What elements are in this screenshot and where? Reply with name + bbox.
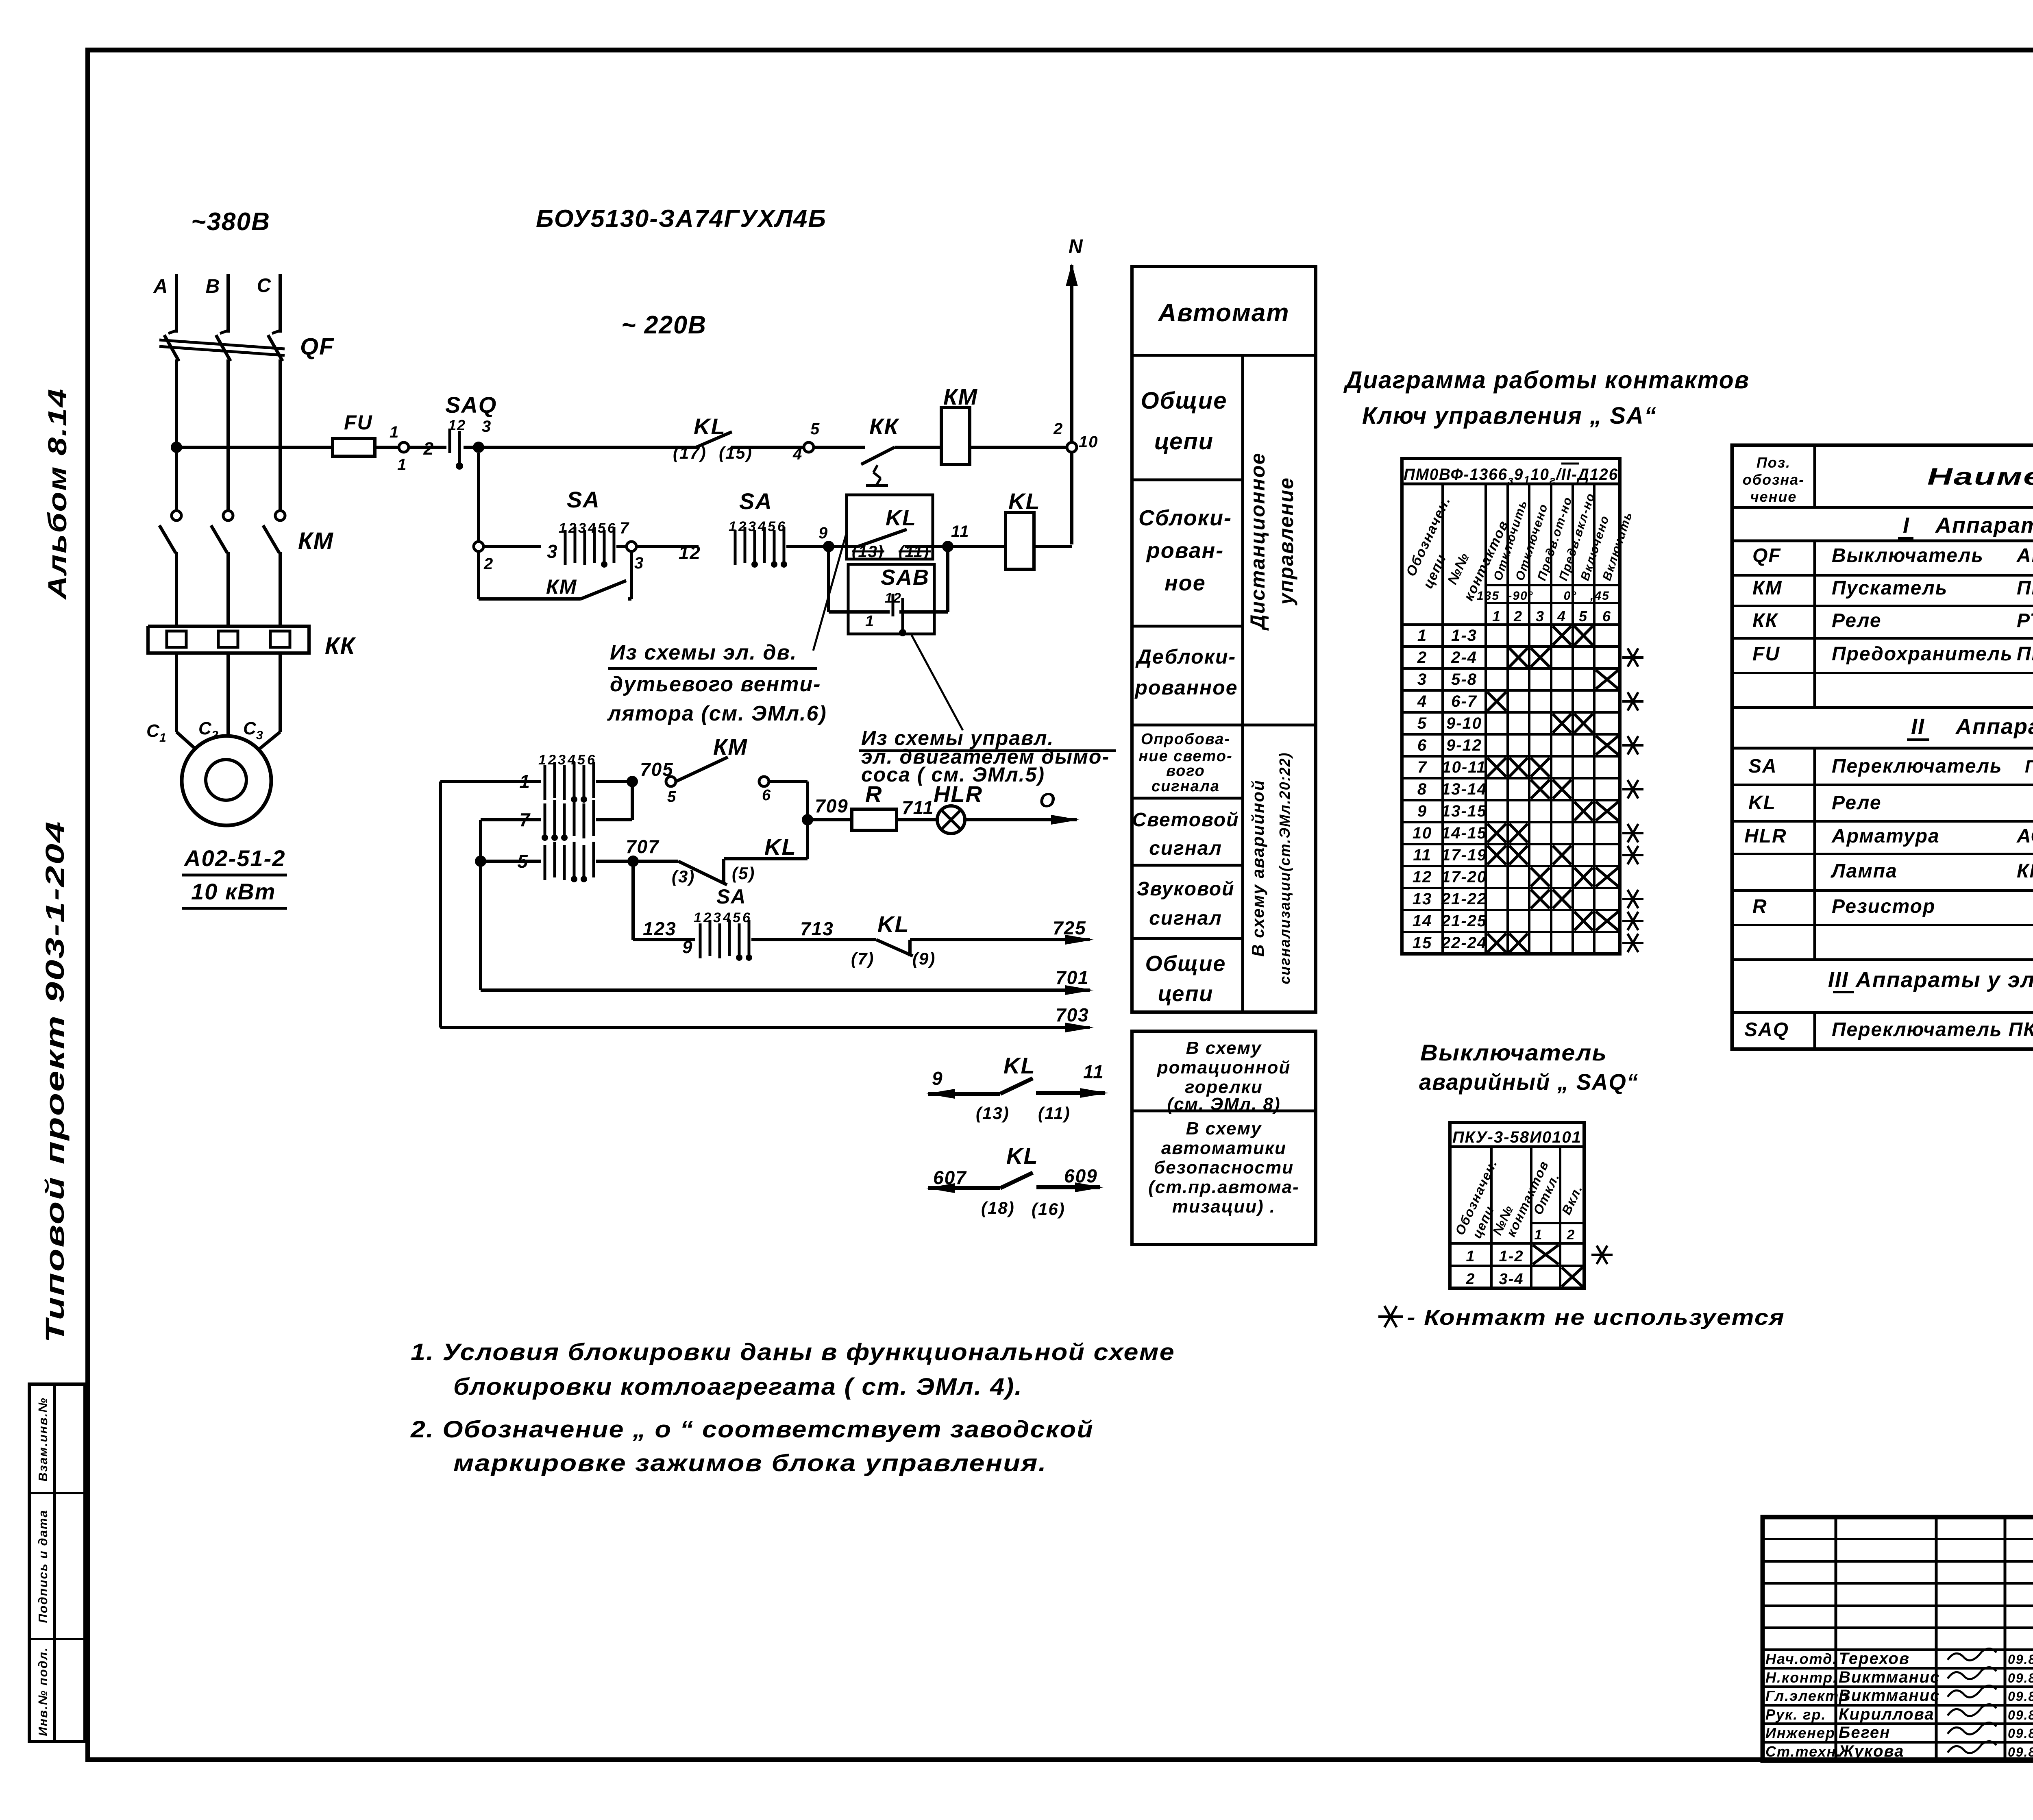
svg-text:блокировки котлоагрегата ( с: блокировки котлоагрегата ( ст. ЭМл. 4). <box>453 1374 1023 1400</box>
svg-text:КМ: КМ <box>546 575 577 598</box>
svg-text:~ 220В: ~ 220В <box>621 311 707 339</box>
wire node709 to resistor <box>808 818 852 821</box>
wire node 11 to KL coil <box>948 545 1006 548</box>
parts list table <box>1732 445 2033 1049</box>
svg-text:KL: KL <box>1006 1143 1038 1169</box>
svg-text:1: 1 <box>865 613 875 630</box>
svg-text:обозна-: обозна- <box>1743 471 1804 488</box>
svg-text:3: 3 <box>634 554 644 572</box>
junction node 707 <box>627 856 639 867</box>
svg-text:В: В <box>206 276 221 297</box>
svg-text:N: N <box>1069 236 1084 257</box>
leader to fan note <box>813 533 847 651</box>
svg-text:135: 135 <box>1477 589 1500 603</box>
wire SAQ to node 3 <box>464 446 479 449</box>
svg-text:709: 709 <box>815 795 849 816</box>
svg-text:609: 609 <box>1064 1165 1098 1186</box>
svg-text:-90°: -90° <box>1508 589 1533 603</box>
svg-text:1: 1 <box>519 771 531 792</box>
svg-text:сигнал: сигнал <box>1149 908 1222 929</box>
svg-text:9: 9 <box>932 1068 943 1089</box>
svg-text:Наименование: Наименование <box>1927 464 2033 490</box>
svg-text:Из схемы эл. дв.: Из схемы эл. дв. <box>610 641 797 664</box>
wire row4 to KL contact <box>751 938 876 941</box>
svg-text:3: 3 <box>482 418 492 435</box>
svg-text:вого: вого <box>1166 762 1205 779</box>
svg-text:Общие: Общие <box>1141 388 1228 414</box>
wire FU to terminal 1 <box>375 446 399 449</box>
wire lamp to O terminal <box>965 818 1077 821</box>
svg-text:10-11: 10-11 <box>1442 758 1486 776</box>
junction node 705 <box>627 776 638 787</box>
svg-text:сигнализации(ст.ЭМл.20:22): сигнализации(ст.ЭМл.20:22) <box>1276 752 1293 984</box>
svg-text:Альбом 8.14: Альбом 8.14 <box>43 388 72 601</box>
svg-text:12: 12 <box>448 417 466 433</box>
svg-text:Сблоки-: Сблоки- <box>1138 506 1232 530</box>
wire row3 <box>481 860 541 863</box>
svg-text:Выключатель: Выключатель <box>1420 1040 1607 1065</box>
svg-text:КМ: КМ <box>943 384 978 409</box>
wire (5) to node709 branch <box>724 857 808 860</box>
wire row1 <box>440 780 541 783</box>
svg-text:Беген: Беген <box>1839 1724 1890 1742</box>
svg-text:7: 7 <box>1417 758 1427 776</box>
svg-text:701: 701 <box>1056 967 1089 988</box>
svg-text:13: 13 <box>1413 890 1432 908</box>
svg-text:КМ: КМ <box>713 734 748 760</box>
svg-text:13-14: 13-14 <box>1441 780 1487 798</box>
svg-text:Жукова: Жукова <box>1838 1742 1904 1760</box>
svg-text:10: 10 <box>1413 824 1432 842</box>
svg-text:5: 5 <box>733 910 741 925</box>
svg-text:SAB: SAB <box>881 565 929 590</box>
terminal node 2/10 on N <box>1067 442 1077 452</box>
wire SA to node 9 <box>786 545 829 548</box>
junction node row3-V2 <box>475 856 486 867</box>
svg-text:5: 5 <box>810 420 820 438</box>
svg-text:123: 123 <box>643 918 677 939</box>
svg-text:12: 12 <box>1413 868 1432 886</box>
svg-text:(5): (5) <box>732 864 755 883</box>
svg-text:В схему: В схему <box>1186 1119 1262 1139</box>
svg-text:KL: KL <box>877 911 910 937</box>
svg-text:ППТ-10У3: ППТ-10У3 <box>2017 643 2033 665</box>
svg-text:В схему аварийной: В схему аварийной <box>1248 779 1267 957</box>
resistor R 2400 Ohm <box>852 809 897 830</box>
svg-text:R: R <box>865 781 882 807</box>
svg-text:КМ: КМ <box>1752 577 1783 599</box>
svg-text:Пускатель: Пускатель <box>1832 577 1948 599</box>
svg-text:Звуковой: Звуковой <box>1137 878 1235 900</box>
svg-text:Виктманис: Виктманис <box>1839 1668 1940 1686</box>
svg-text:KL: KL <box>1008 488 1040 514</box>
svg-text:тизации) .: тизации) . <box>1172 1197 1276 1217</box>
wire phase C KM to KK <box>279 552 282 626</box>
svg-text:12: 12 <box>679 542 701 563</box>
wire row4 to 725 arrow <box>910 938 1090 941</box>
wire terminal to SAQ <box>409 446 446 449</box>
svg-text:Виктманис: Виктманис <box>1839 1687 1940 1705</box>
svg-text:HLR: HLR <box>934 781 983 807</box>
svg-text:Выключатель: Выключатель <box>1832 545 1984 566</box>
svg-text:сигнал: сигнал <box>1149 838 1222 859</box>
relay contact KL (13)(11) in block <box>829 545 858 548</box>
svg-text:2: 2 <box>1417 649 1427 666</box>
signal lamp HLR <box>937 806 965 834</box>
svg-text:дутьевого венти-: дутьевого венти- <box>610 673 821 696</box>
svg-text:1-2: 1-2 <box>1499 1248 1524 1265</box>
svg-text:(11): (11) <box>1038 1104 1071 1123</box>
svg-text:QF: QF <box>1752 545 1781 566</box>
svg-text:1: 1 <box>1417 627 1427 644</box>
svg-text:Реле: Реле <box>1832 792 1882 814</box>
svg-text:2: 2 <box>483 555 494 573</box>
svg-text:3-4: 3-4 <box>1499 1271 1524 1288</box>
svg-text:Деблоки-: Деблоки- <box>1135 645 1236 668</box>
svg-text:KL: KL <box>694 414 726 439</box>
svg-text:Реле: Реле <box>1832 610 1882 631</box>
svg-text:5: 5 <box>1579 608 1588 625</box>
svg-text:Переключатель: Переключатель <box>1832 755 2002 777</box>
contactor KM main contacts <box>172 511 181 520</box>
emergency pushbutton SAB loop <box>827 552 830 612</box>
svg-text:Предохранитель: Предохранитель <box>1832 643 2013 665</box>
leader to SAB note <box>912 635 963 730</box>
svg-text:09.83: 09.83 <box>2008 1671 2033 1685</box>
svg-text:КМ: КМ <box>298 528 334 554</box>
svg-text:QF: QF <box>300 333 335 360</box>
svg-text:А: А <box>153 276 169 297</box>
svg-text:Н.контр.: Н.контр. <box>1765 1669 1838 1686</box>
terminal circle 5/4 <box>804 442 814 452</box>
svg-text:рованное: рованное <box>1134 676 1238 699</box>
motor M A02-51-2 <box>182 736 271 825</box>
svg-text:707: 707 <box>626 836 660 857</box>
title block frame <box>1763 1517 2033 1761</box>
wire phase B KM to KK <box>226 552 230 626</box>
wire phase B KK to motor <box>226 653 230 732</box>
svg-text:БОУ5130-ЗА74ГУХЛ4Б: БОУ5130-ЗА74ГУХЛ4Б <box>536 205 827 232</box>
svg-text:Терехов: Терехов <box>1839 1650 1910 1668</box>
svg-text:0°: 0° <box>1564 589 1577 603</box>
thermal relay KK heaters <box>148 626 309 653</box>
svg-text:9: 9 <box>818 524 828 542</box>
wire phase B upper <box>226 274 230 333</box>
wire KM coil to node 2/10 <box>970 446 1067 449</box>
svg-text:8: 8 <box>1417 780 1427 798</box>
wire row5 to 701 arrow <box>481 988 1090 992</box>
switch SA contacts row 3 <box>544 845 546 880</box>
svg-text:С: С <box>198 718 212 738</box>
svg-text:Опробова-: Опробова- <box>1141 731 1230 748</box>
svg-text:KL: KL <box>886 506 916 530</box>
svg-text:Инженер: Инженер <box>1765 1724 1835 1741</box>
wire KL coil to N <box>1034 545 1072 548</box>
bypass contact KM below bus2 <box>477 551 480 599</box>
svg-text:9-10: 9-10 <box>1446 714 1482 732</box>
SAQ table grid <box>1450 1123 1584 1288</box>
svg-text:6: 6 <box>1602 608 1611 625</box>
svg-text:SA: SA <box>567 487 600 512</box>
svg-text:Автомат: Автомат <box>1157 299 1289 327</box>
svg-text:ротационной: ротационной <box>1157 1058 1291 1078</box>
junction node 11 <box>942 541 953 552</box>
junction node 709 <box>802 814 813 825</box>
svg-text:4: 4 <box>1417 692 1427 710</box>
svg-text:аварийный „ SAQ“: аварийный „ SAQ“ <box>1419 1069 1639 1095</box>
svg-text:3: 3 <box>256 729 264 742</box>
svg-text:09.83: 09.83 <box>2008 1726 2033 1741</box>
svg-text:11: 11 <box>1413 846 1432 864</box>
wire bus1 node3 to KL contact <box>479 446 696 449</box>
terminal circle 7/3 <box>627 542 636 551</box>
svg-text:725: 725 <box>1053 917 1086 938</box>
svg-text:SAQ: SAQ <box>445 392 497 418</box>
svg-text:Взам.инв.№: Взам.инв.№ <box>36 1397 50 1482</box>
wire resistor to lamp <box>897 818 938 821</box>
svg-text:Нач.отд.: Нач.отд. <box>1765 1650 1837 1667</box>
wire phase B QF to KM <box>226 359 230 511</box>
block boundary box around KL contact <box>847 495 933 559</box>
svg-text:,45: ,45 <box>1590 589 1610 603</box>
svg-text:Поз.: Поз. <box>1757 454 1791 471</box>
wire to circle 7/3 <box>616 545 627 548</box>
junction node 3 <box>473 442 484 453</box>
svg-text:4: 4 <box>1557 608 1566 625</box>
svg-text:2: 2 <box>1513 608 1523 625</box>
wire phase C upper <box>279 274 282 333</box>
wire phase C KK to motor <box>279 653 282 732</box>
fuse FU <box>333 438 375 456</box>
svg-text:1: 1 <box>1535 1227 1543 1243</box>
svg-text:2: 2 <box>1465 1271 1475 1288</box>
wire N down to KL coil branch <box>1070 452 1073 544</box>
svg-text:(16): (16) <box>1032 1200 1065 1219</box>
svg-text:5-8: 5-8 <box>1451 671 1477 688</box>
svg-text:2: 2 <box>1567 1227 1576 1243</box>
svg-text:SAQ: SAQ <box>1744 1019 1789 1041</box>
svg-text:09.83: 09.83 <box>2008 1745 2033 1759</box>
svg-text:ПМ0ВФ-1366з9110г/II-Д126: ПМ0ВФ-1366з9110г/II-Д126 <box>1404 466 1618 486</box>
svg-text:703: 703 <box>1056 1004 1089 1025</box>
contactor auxiliary contact KM row1 <box>666 777 676 786</box>
wire phase A KM to KK <box>175 552 178 626</box>
svg-text:2-4: 2-4 <box>1451 649 1477 666</box>
svg-text:10: 10 <box>1079 433 1099 451</box>
svg-text:1: 1 <box>1466 1248 1475 1265</box>
svg-text:HLR: HLR <box>1744 825 1787 847</box>
svg-text:SA: SA <box>1748 755 1777 777</box>
svg-text:2: 2 <box>1053 420 1063 438</box>
pushbutton SAB box <box>848 564 934 634</box>
svg-text:Гл.электр: Гл.электр <box>1765 1687 1849 1704</box>
svg-text:Вкл.: Вкл. <box>1559 1182 1585 1217</box>
svg-text:КК: КК <box>869 414 899 439</box>
svg-text:1: 1 <box>159 731 167 745</box>
svg-text:Инв.№ подл.: Инв.№ подл. <box>36 1647 50 1736</box>
wire row1 right to riser <box>769 780 808 783</box>
svg-text:АС1201У2: АС1201У2 <box>2016 825 2033 847</box>
svg-text:(18): (18) <box>981 1198 1015 1217</box>
relay contact KL (17)(15) on bus1 <box>696 432 732 447</box>
svg-text:Световой: Световой <box>1132 809 1239 831</box>
svg-text:15: 15 <box>1413 934 1432 952</box>
wire phase C QF to KM <box>279 359 282 511</box>
svg-text:1: 1 <box>390 423 399 441</box>
svg-text:КК: КК <box>1752 610 1779 631</box>
relay contact KL (7)(9) row4 <box>876 940 913 956</box>
svg-text:4: 4 <box>792 445 803 463</box>
wire 707 down to row4 <box>631 861 635 940</box>
svg-text:Лампа: Лампа <box>1831 860 1898 882</box>
wire row2 <box>481 818 541 821</box>
svg-text:9: 9 <box>682 937 693 957</box>
svg-text:7: 7 <box>519 809 531 830</box>
svg-text:Арматура: Арматура <box>1831 825 1940 847</box>
svg-text:Аппараты на щите КИП: Аппараты на щите КИП <box>1955 714 2033 739</box>
svg-text:17-20: 17-20 <box>1441 868 1487 886</box>
svg-text:Ст.техн.: Ст.техн. <box>1765 1743 1841 1760</box>
svg-text:5: 5 <box>1417 714 1427 732</box>
svg-text:ПМА210004Б: ПМА210004Б <box>2017 577 2033 599</box>
svg-text:рован-: рован- <box>1146 538 1224 563</box>
svg-text:С: С <box>146 721 160 741</box>
svg-text:11: 11 <box>951 522 970 540</box>
svg-text:11: 11 <box>1083 1061 1104 1082</box>
svg-text:21-22: 21-22 <box>1441 890 1487 908</box>
svg-text:ПМОВФ 1366з9110г/II-Д126: ПМОВФ 1366з9110г/II-Д126 <box>2025 757 2033 780</box>
wire row6 to 703 arrow <box>440 1026 1090 1029</box>
svg-text:ПКУ-3-58И0101: ПКУ-3-58И0101 <box>1452 1128 1582 1146</box>
svg-text:лятора (см. ЭМл.6): лятора (см. ЭМл.6) <box>607 702 827 725</box>
svg-text:6-7: 6-7 <box>1451 692 1477 710</box>
svg-text:3: 3 <box>547 541 558 562</box>
svg-text:5: 5 <box>667 788 677 806</box>
svg-text:О: О <box>1039 789 1056 812</box>
svg-text:3: 3 <box>1417 671 1427 688</box>
svg-text:6: 6 <box>762 787 771 804</box>
svg-text:14: 14 <box>1413 912 1432 930</box>
svg-text:2: 2 <box>423 439 434 459</box>
svg-text:ное: ное <box>1165 571 1206 595</box>
wire drop node3 to bus2 <box>477 453 480 542</box>
svg-text:(13): (13) <box>976 1104 1010 1123</box>
svg-text:1. Условия блокировки даны: 1. Условия блокировки даны в функциональ… <box>411 1339 1175 1365</box>
svg-text:(9): (9) <box>912 949 936 968</box>
svg-text:21-25: 21-25 <box>1441 912 1487 930</box>
box to rotary burner circuit <box>1132 1031 1316 1245</box>
svg-text:Рук. гр.: Рук. гр. <box>1765 1706 1826 1723</box>
svg-text:1: 1 <box>1492 608 1501 625</box>
footnote: contact not used <box>1378 1315 1403 1318</box>
svg-text:13-15: 13-15 <box>1441 802 1487 820</box>
svg-text:R: R <box>1752 896 1767 917</box>
function column table <box>1132 266 1316 1012</box>
wire phase A QF to KM <box>175 359 178 511</box>
svg-text:22-24: 22-24 <box>1441 934 1487 952</box>
wire left vertical V2 <box>479 820 482 990</box>
svg-text:(15): (15) <box>719 443 753 462</box>
svg-text:КК: КК <box>325 633 356 659</box>
svg-text:1: 1 <box>694 910 702 925</box>
switch SA contacts row 2 <box>544 803 546 838</box>
junction node bus1 on phase A <box>171 442 182 453</box>
svg-text:2. Обозначение „ о “ соответс: 2. Обозначение „ о “ соответствует завод… <box>410 1416 1094 1443</box>
svg-text:РТЛ-102204: РТЛ-102204 <box>2017 610 2033 631</box>
svg-text:10 кВт: 10 кВт <box>191 879 276 904</box>
svg-text:цепи: цепи <box>1154 428 1214 455</box>
wire to KK contact <box>814 446 865 449</box>
svg-text:KL: KL <box>764 834 797 860</box>
svg-text:Общие: Общие <box>1145 951 1226 976</box>
svg-text:Переключатель ПКУ3-58И0101: Переключатель ПКУ3-58И0101 <box>1832 1019 2033 1041</box>
svg-text:КМ- 24 -90: КМ- 24 -90 <box>2017 860 2033 882</box>
svg-text:FU: FU <box>344 411 373 434</box>
svg-text:(ст.пр.автома-: (ст.пр.автома- <box>1148 1177 1299 1197</box>
svg-text:сигнала: сигнала <box>1151 778 1220 795</box>
svg-text:цепи: цепи <box>1158 982 1214 1006</box>
svg-text:С: С <box>257 275 272 296</box>
svg-text:SA: SA <box>716 885 746 908</box>
svg-text:управление: управление <box>1275 477 1297 606</box>
circuit breaker QF <box>168 330 177 333</box>
svg-text:17-19: 17-19 <box>1441 846 1487 864</box>
wire phase A KK to motor <box>175 653 178 732</box>
svg-text:6: 6 <box>1417 736 1427 754</box>
svg-text:1-3: 1-3 <box>1451 627 1477 644</box>
wire bus2 after circle 7 <box>636 545 699 548</box>
svg-text:Кириллова: Кириллова <box>1839 1705 1934 1723</box>
svg-text:KL: KL <box>1003 1053 1036 1078</box>
relay coil KL <box>1006 512 1034 569</box>
svg-text:Типовой проект 903-1-204: Типовой проект 903-1-204 <box>40 821 70 1343</box>
wire bus1 from phase A to FU <box>176 446 333 449</box>
svg-text:автоматики: автоматики <box>1161 1138 1286 1158</box>
svg-text:09.83: 09.83 <box>2008 1689 2033 1704</box>
svg-text:3: 3 <box>713 910 722 925</box>
wire riser to node 709 <box>806 782 809 859</box>
svg-text:3: 3 <box>1536 608 1545 625</box>
svg-text:5: 5 <box>517 851 529 872</box>
svg-text:- Контакт не используется: - Контакт не используется <box>1407 1305 1785 1330</box>
junction node 9 <box>823 541 834 552</box>
svg-text:А02-51-2: А02-51-2 <box>183 845 285 871</box>
terminal circle 1 <box>399 442 409 452</box>
svg-text:(см. ЭМл. 8): (см. ЭМл. 8) <box>1167 1094 1280 1114</box>
svg-text:АЕ2036-10У3: АЕ2036-10У3 <box>2016 545 2033 566</box>
svg-text:(3): (3) <box>672 867 695 886</box>
svg-text:(17): (17) <box>673 443 707 462</box>
svg-text:Дистанционное: Дистанционное <box>1246 452 1269 631</box>
wire row4 start stub <box>633 938 695 941</box>
svg-text:маркировке зажимов блока у: маркировке зажимов блока управления. <box>453 1450 1047 1476</box>
motor leads <box>176 732 200 753</box>
svg-text:7: 7 <box>620 519 629 537</box>
wire vertical rows1-2 join <box>631 782 634 820</box>
svg-text:чение: чение <box>1750 488 1797 505</box>
contact diagram table grid <box>1402 459 1620 954</box>
svg-text:FU: FU <box>1752 643 1780 665</box>
svg-text:Аппараты на НКУ: Аппараты на НКУ <box>1935 513 2033 538</box>
svg-text:I: I <box>1903 513 1910 538</box>
svg-text:III Аппараты у электродвиг: III Аппараты у электродвигателя <box>1828 968 2033 992</box>
svg-text:09.83: 09.83 <box>2008 1708 2033 1722</box>
relay contact KL (3)(5) row3 <box>633 860 678 863</box>
bottom-left inventory strip <box>29 1384 85 1742</box>
svg-text:(7): (7) <box>851 949 874 968</box>
svg-text:Диаграмма работы контактов: Диаграмма работы контактов <box>1343 366 1750 394</box>
wire bus2 start <box>483 545 541 548</box>
